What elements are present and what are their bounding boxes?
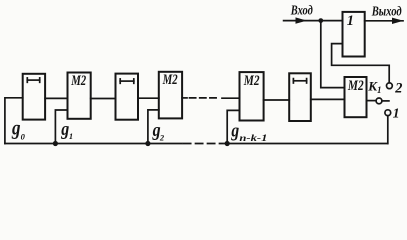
delay symbol inside D2 [120,79,134,83]
wire: output line (Vyhod) [365,20,403,22]
mod-2 adder M2 (second cell) [68,73,91,119]
switch contact 1 circle [385,110,391,116]
wire: OR second input feedback to contact 2 [332,44,390,83]
wire: chain solid into fifth cell [222,97,240,99]
delay element D1 (first shift-register cell) [23,74,45,120]
switch contact 2 circle [387,83,393,89]
svg-text:g: g [11,117,20,139]
svg-text:М2: М2 [347,78,364,94]
wire: tap g(n-k-1) riser into fifth cell [227,110,239,143]
svg-text:2: 2 [394,81,402,97]
svg-text:М2: М2 [162,72,178,88]
mod-2 adder M2 (last cell) [345,77,367,117]
junction dot at input branch [318,18,323,23]
wire: chain D2 to M2 [138,97,159,99]
arrowhead on output wire [392,18,404,24]
wire: chain M2 out, solid stub before dashes [182,97,187,99]
switch K1 arm [382,100,389,102]
arrowhead on input wire [296,17,307,23]
delay element D3 (sixth cell) [289,73,311,121]
switch K1 pole contact circle [376,98,382,104]
svg-text:М2: М2 [243,73,260,89]
wire: bottom bus solid left part [5,143,182,145]
svg-text:g: g [231,121,240,142]
wire: last M2 output to switch pole [367,100,376,102]
svg-text:0: 0 [21,132,26,142]
wire: chain M2 to D2 [91,98,116,100]
svg-text:2: 2 [159,132,165,142]
wire: chain M2 to D3 [264,99,290,101]
mod-2 adder M2 (fourth cell) [159,72,182,119]
wire: chain D3 to last M2 [311,98,345,100]
wire: tap g1 riser into second cell [55,110,67,144]
wire: tap g2 riser into fourth cell [148,110,159,144]
svg-text:1: 1 [347,13,354,29]
junction dot g1 on bus [53,141,58,146]
wire: bottom bus dashed part [184,143,223,145]
delay element D2 (third cell) [116,74,139,120]
svg-text:1: 1 [69,131,73,141]
wire: input arrow line (Vhod) [284,20,343,22]
wire: chain D1 to M2 [45,97,67,99]
wire: Vhod tap down to last M2 upper input [321,21,345,88]
wire: bottom bus solid right part [224,143,388,145]
mod-2 adder M2 (fifth cell, after dashed break) [240,72,264,120]
delay symbol inside D3 [293,79,306,83]
svg-text:1: 1 [393,106,400,121]
svg-text:Вход: Вход [290,2,313,17]
wire: left feedback g0 riser [5,98,23,144]
junction dot g(n-k-1) on bus [225,141,230,146]
svg-text:Выход: Выход [371,3,402,18]
OR gate U1 "1" [343,12,365,57]
svg-text:n-k-1: n-k-1 [239,133,267,143]
svg-text:М2: М2 [70,73,86,89]
junction dot g2 on bus [145,141,150,146]
wire: chain dashed break [190,97,220,99]
wire: contact 1 down to bottom bus [387,116,389,144]
delay symbol inside D1 [27,78,39,82]
